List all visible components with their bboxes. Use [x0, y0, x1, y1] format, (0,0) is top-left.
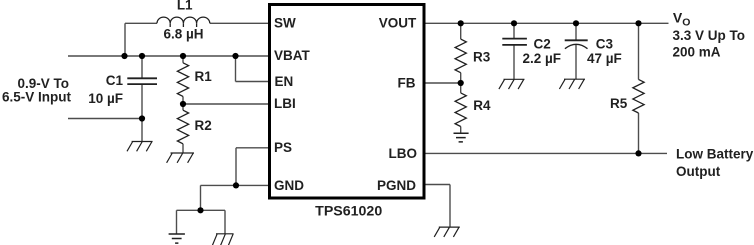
svg-text:TPS61020: TPS61020: [315, 204, 382, 220]
svg-text:EN: EN: [275, 74, 294, 89]
svg-text:LBO: LBO: [389, 146, 418, 161]
svg-text:Low Battery: Low Battery: [676, 146, 754, 161]
svg-text:R5: R5: [610, 96, 628, 111]
svg-text:R1: R1: [195, 69, 213, 84]
svg-text:200 mA: 200 mA: [673, 45, 721, 60]
svg-text:6.5-V Input: 6.5-V Input: [2, 90, 72, 105]
svg-text:R4: R4: [473, 98, 491, 113]
svg-text:C1: C1: [106, 73, 124, 88]
svg-text:FB: FB: [398, 75, 416, 90]
svg-text:6.8 µH: 6.8 µH: [163, 26, 203, 41]
svg-text:Output: Output: [676, 164, 721, 179]
svg-text:C2: C2: [534, 36, 551, 51]
svg-text:2.2 µF: 2.2 µF: [523, 51, 562, 66]
svg-text:VBAT: VBAT: [274, 48, 311, 63]
svg-text:PS: PS: [274, 140, 292, 155]
svg-text:C3: C3: [596, 36, 614, 51]
svg-text:GND: GND: [274, 178, 304, 193]
svg-text:SW: SW: [274, 16, 296, 31]
svg-text:LBI: LBI: [274, 96, 296, 111]
svg-text:3.3 V Up To: 3.3 V Up To: [673, 28, 746, 43]
svg-text:L1: L1: [177, 0, 193, 12]
svg-text:R3: R3: [473, 49, 491, 64]
svg-text:10 µF: 10 µF: [88, 91, 123, 106]
svg-text:PGND: PGND: [377, 178, 416, 193]
svg-text:47 µF: 47 µF: [587, 51, 622, 66]
svg-text:VOUT: VOUT: [379, 15, 417, 30]
svg-text:R2: R2: [195, 118, 212, 133]
